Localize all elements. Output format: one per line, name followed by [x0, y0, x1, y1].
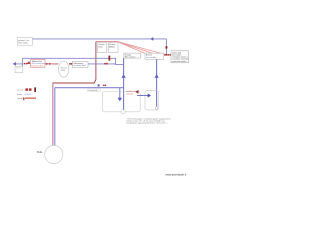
svg-text:Evier: Evier: [98, 45, 103, 48]
wire: blue drop to well: [54, 88, 56, 153]
flow arrow up on pipe: [121, 74, 125, 77]
svg-text:ds citerne 10m3: ds citerne 10m3: [73, 64, 86, 67]
wire: blue return line B2: [55, 87, 124, 89]
node box: compteur (top-left label box): [17, 38, 32, 46]
wire: red segment through tableau: [30, 63, 59, 65]
wire: blue line drop at right: [165, 39, 167, 55]
component box: douche sdb: [108, 43, 118, 53]
arrow on blue supply line (pointing left): [150, 37, 153, 41]
legend row 1: eau chaude: [17, 87, 36, 92]
room box 2: [145, 90, 159, 110]
junction dots on B2: [103, 85, 105, 87]
room box 1: [102, 92, 140, 112]
wire: blue arrow into room 2: [137, 95, 149, 97]
svg-text:chauff.: chauff.: [17, 98, 23, 100]
wire: long blue supply line y=39: [33, 38, 167, 40]
svg-text:eau chauffee: eau chauffee: [146, 57, 156, 59]
wire: blue from pump box to junction: [88, 63, 116, 65]
wire: lower feed line B with left arrow: [14, 63, 23, 65]
junction dots: [104, 63, 106, 65]
node box: label on B2: [88, 89, 101, 92]
wire: branch with down arrow into room 1: [119, 88, 121, 99]
svg-text:SdBain: SdBain: [109, 46, 115, 48]
svg-text:40 m ss fourreau: 40 m ss fourreau: [32, 63, 45, 65]
component box: ballon/cumulus (far right): [171, 51, 189, 63]
wire: blue pipe from surpresseur down to room 2 circle: [156, 59, 158, 106]
valve on vertical drop: [166, 46, 168, 48]
wire: red distribution line top: [96, 41, 118, 43]
valve on P2: [109, 56, 111, 60]
note paragraph: [126, 117, 171, 124]
svg-text:eau ch.: eau ch.: [17, 90, 24, 92]
svg-text:circulateur aquastop(s) force: circulateur aquastop(s) force / pression…: [126, 122, 168, 125]
flow arrow up on pipe 2: [154, 74, 158, 77]
wire: red fan line 2: [118, 42, 153, 54]
component box: bidet / wc: [124, 53, 140, 58]
junction dots to box at right: [167, 54, 169, 56]
legend row 2: eau froide: [17, 94, 32, 96]
junction dots on line B: [24, 63, 26, 65]
arrow head pointing left: [13, 62, 16, 66]
fixture circle room1: [121, 110, 125, 114]
svg-text:Commande: Commande: [88, 90, 97, 92]
svg-text:a prevoir: a prevoir: [126, 93, 133, 95]
wire: purple drop to small box: [21, 58, 23, 66]
wire: red fan line to box Bidet: [118, 42, 145, 54]
svg-text:www.archifacile.fr: www.archifacile.fr: [166, 172, 187, 176]
svg-text:40/49: 40/49: [61, 70, 66, 72]
node box: small square below arrow: [15, 66, 23, 72]
component box: tableau (red box): [31, 60, 45, 68]
well: puits circle: [37, 145, 63, 163]
wire: blue pipe from bidet box down to room circle: [123, 58, 125, 110]
wire: dark red vertical main: [53, 42, 96, 83]
svg-text:WC a reserv.: WC a reserv.: [125, 56, 136, 59]
svg-text:Puits: Puits: [37, 151, 43, 154]
legend row 3: chauffage: [17, 97, 36, 100]
label: chauffe-eau note (red): [126, 90, 138, 95]
component box: cuisine evier: [97, 43, 107, 53]
component box: surpresseur: [145, 53, 164, 59]
svg-text:froide: froide: [17, 94, 23, 96]
valve purple on B2: [98, 84, 100, 86]
pump ellipse: [59, 61, 69, 77]
component box: grande pompe: [72, 61, 88, 67]
red arrow into pump: [53, 63, 58, 65]
wire: red fan line 3: [118, 42, 167, 55]
red arrow out of pump: [69, 63, 72, 65]
wire: purple line mid (P2): [22, 58, 123, 64]
junction dots right of surpresseur: [164, 54, 166, 56]
wire: pink line down to well: [52, 83, 54, 153]
fixture circle room2: [155, 107, 158, 110]
svg-text:production solaire: production solaire: [172, 60, 186, 63]
svg-text:filtre sable: filtre sable: [18, 41, 28, 44]
